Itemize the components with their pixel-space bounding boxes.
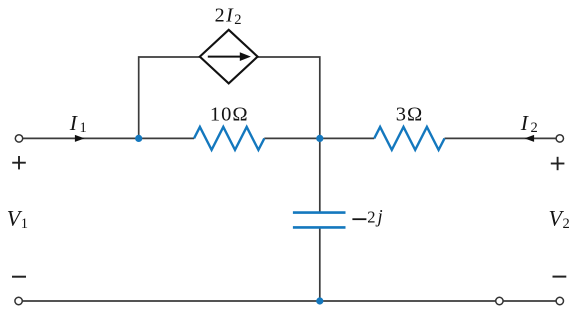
- arrow inside dependent source: [208, 52, 251, 61]
- wire: capacitor bottom plate down to bottom node: [319, 229, 321, 302]
- terminal: left bottom port: [15, 297, 22, 304]
- terminal: right top port: [556, 135, 563, 142]
- current arrow I2: [524, 135, 534, 142]
- wire: source right terminal across and down to center node: [258, 57, 320, 138]
- plus sign (left port polarity): [12, 156, 26, 169]
- wire: left node up and across to source left terminal: [139, 57, 200, 138]
- resistor R2 3ohm: [374, 127, 444, 150]
- node B (center junction): [316, 135, 323, 142]
- label -2j: [352, 208, 382, 228]
- wire: 3-ohm resistor to right port: [445, 137, 557, 139]
- wire: center node down to capacitor top plate: [319, 138, 321, 211]
- wire: bottom rail from left port to inner right terminal: [22, 300, 495, 302]
- svg-text:V1: V1: [7, 206, 28, 233]
- svg-text:2I2: 2I2: [215, 5, 242, 28]
- terminal: outer right bottom: [556, 297, 563, 304]
- wire: left port to 10-ohm resistor: [23, 137, 194, 139]
- node C (bottom junction): [316, 297, 323, 304]
- dependent current source U1 (diamond): [200, 30, 258, 84]
- minus sign (right port polarity): [553, 276, 567, 278]
- node A (left junction): [135, 135, 142, 142]
- svg-text:2j: 2j: [367, 208, 382, 228]
- wire: bottom link between the two right terminals: [503, 300, 556, 302]
- svg-text:V2: V2: [549, 206, 570, 233]
- svg-text:10Ω: 10Ω: [210, 104, 249, 126]
- resistor R1 10ohm: [194, 127, 264, 150]
- plus sign (right port polarity): [551, 157, 565, 170]
- svg-text:I2: I2: [520, 111, 538, 136]
- current arrow I1: [75, 135, 85, 142]
- wire: 10-ohm resistor to 3-ohm resistor through center node: [264, 137, 374, 139]
- svg-text:3Ω: 3Ω: [396, 104, 424, 126]
- terminal: left top port: [15, 135, 22, 142]
- capacitor C1 (-2j) plates: [293, 213, 346, 228]
- svg-text:I1: I1: [69, 111, 87, 136]
- terminal: inner right bottom: [496, 297, 503, 304]
- minus sign (left port polarity): [12, 276, 26, 278]
